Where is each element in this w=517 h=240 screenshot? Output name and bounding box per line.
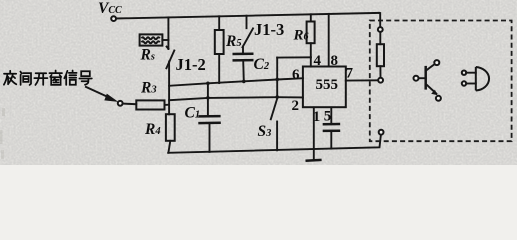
wire J1-2 lower vertical xyxy=(168,62,170,115)
wire pin4 bend horizontal xyxy=(277,56,311,58)
char hao xyxy=(79,71,91,84)
wire bottom ground rail xyxy=(168,135,381,153)
svg-text:2: 2 xyxy=(292,98,300,114)
paper noise xyxy=(0,9,506,159)
power terminal Vcc circle xyxy=(111,16,116,21)
wire drop to Rs and J1-2 xyxy=(167,17,169,49)
label night window signal (Chinese) xyxy=(4,71,92,85)
wire Vcc feed into module xyxy=(379,13,380,27)
wire top Vcc rail xyxy=(116,13,379,19)
junction node riser on row2 xyxy=(275,95,279,99)
transistor Q1 xyxy=(414,60,441,101)
svg-text:6: 6 xyxy=(292,67,300,83)
ground symbol xyxy=(306,149,322,161)
wire node row 1 (pins 6 node) xyxy=(169,78,303,86)
char ye xyxy=(4,71,16,85)
terminal module bottom xyxy=(379,130,384,135)
char chuang xyxy=(49,71,62,85)
wire module resistor bottom lead xyxy=(379,66,381,78)
char kai xyxy=(34,73,47,85)
resistor R4 xyxy=(166,114,175,153)
capacitor C1 xyxy=(198,83,221,152)
wire pin4 stub into 555 xyxy=(310,57,312,66)
switch S3 blade xyxy=(271,98,278,120)
svg-text:J1-3: J1-3 xyxy=(254,20,284,39)
resistor module pull-up xyxy=(377,44,384,66)
svg-text:4: 4 xyxy=(314,53,322,69)
dashed module box xyxy=(370,21,512,142)
wire S3 lower contact xyxy=(276,122,278,151)
wire node row 2 (pin 2) xyxy=(169,97,303,100)
wire Rs lead xyxy=(162,39,168,41)
wire pin8 drop xyxy=(328,14,330,67)
wire pin6 riser x277 xyxy=(276,58,278,98)
switch J1-2 blade xyxy=(166,51,174,69)
capacitor C5 at pin5 xyxy=(323,124,341,149)
svg-text:555: 555 xyxy=(316,77,339,93)
terminal module top xyxy=(378,27,383,32)
junction node C1 top on row1 xyxy=(206,82,210,86)
wire module resistor top lead xyxy=(379,32,381,44)
terminal module middle xyxy=(378,78,383,83)
switch J1-2 top contact tick xyxy=(167,47,169,49)
buzzer / earphone xyxy=(462,67,489,91)
resistor R6 xyxy=(307,14,315,57)
junction node C1 on row2 xyxy=(206,96,210,100)
svg-text:7: 7 xyxy=(346,66,354,82)
svg-text:8: 8 xyxy=(331,53,339,69)
arrow to input terminal xyxy=(86,87,118,102)
wire pin5 lead xyxy=(330,107,332,124)
paper speckle overlay xyxy=(0,0,517,165)
input terminal circle xyxy=(118,101,123,106)
resistor Rs (sensor) body xyxy=(140,34,163,45)
char jian xyxy=(20,72,31,85)
junction node riser on row1 xyxy=(275,78,279,82)
resistor R5 xyxy=(215,16,224,83)
svg-text:J1-2: J1-2 xyxy=(176,55,206,74)
wire pin1 to ground xyxy=(313,107,315,149)
char xin xyxy=(64,71,76,85)
op IC 555 box xyxy=(303,67,346,108)
switch J1-3 xyxy=(243,16,254,48)
resistor R3 xyxy=(123,100,169,109)
capacitor C2 xyxy=(233,47,254,82)
svg-text:5: 5 xyxy=(324,109,332,125)
junction node C2 on row1 xyxy=(242,80,246,84)
wire pin7 output xyxy=(346,79,378,81)
